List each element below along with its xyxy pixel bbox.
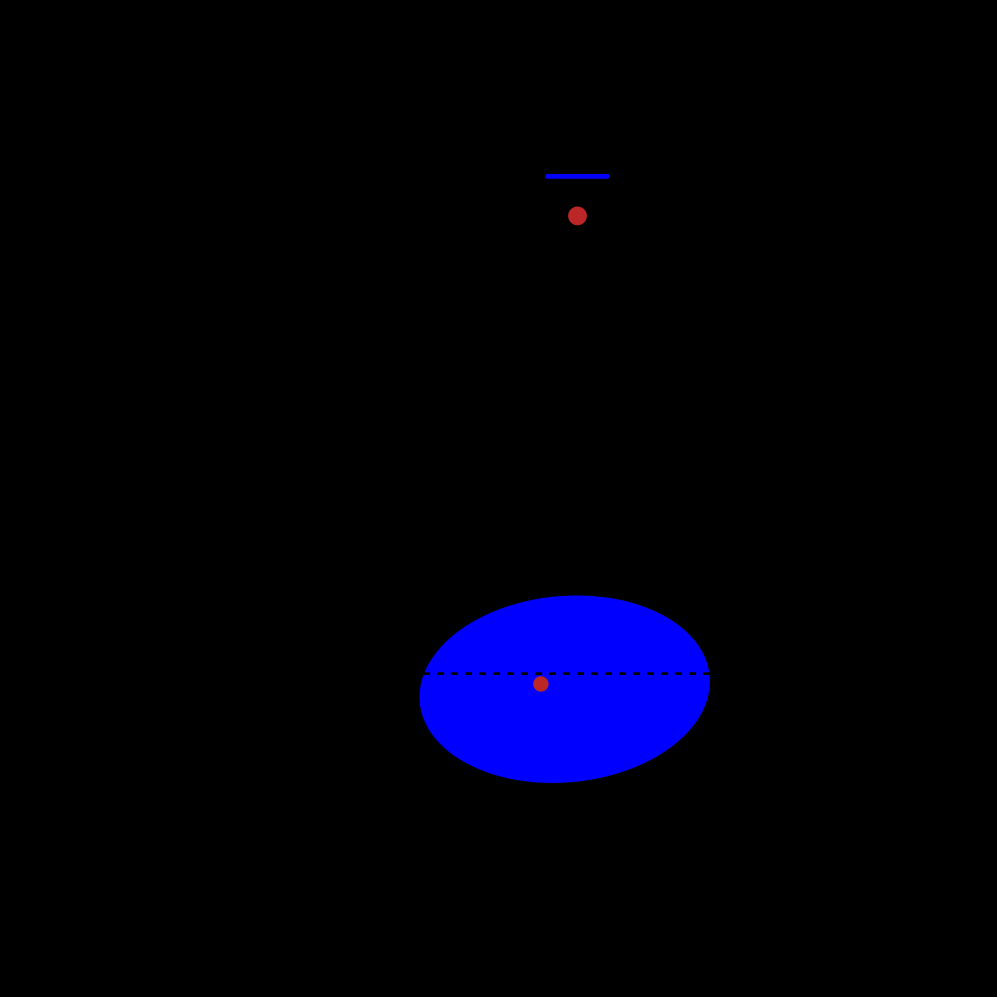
particle below disk [568, 207, 587, 226]
particle inside spheroid [533, 676, 548, 691]
oblate spheroid (blue ellipse) [411, 583, 718, 795]
equator dashed line [423, 672, 710, 675]
thin disk (edge-on spheroid) top [547, 174, 607, 179]
